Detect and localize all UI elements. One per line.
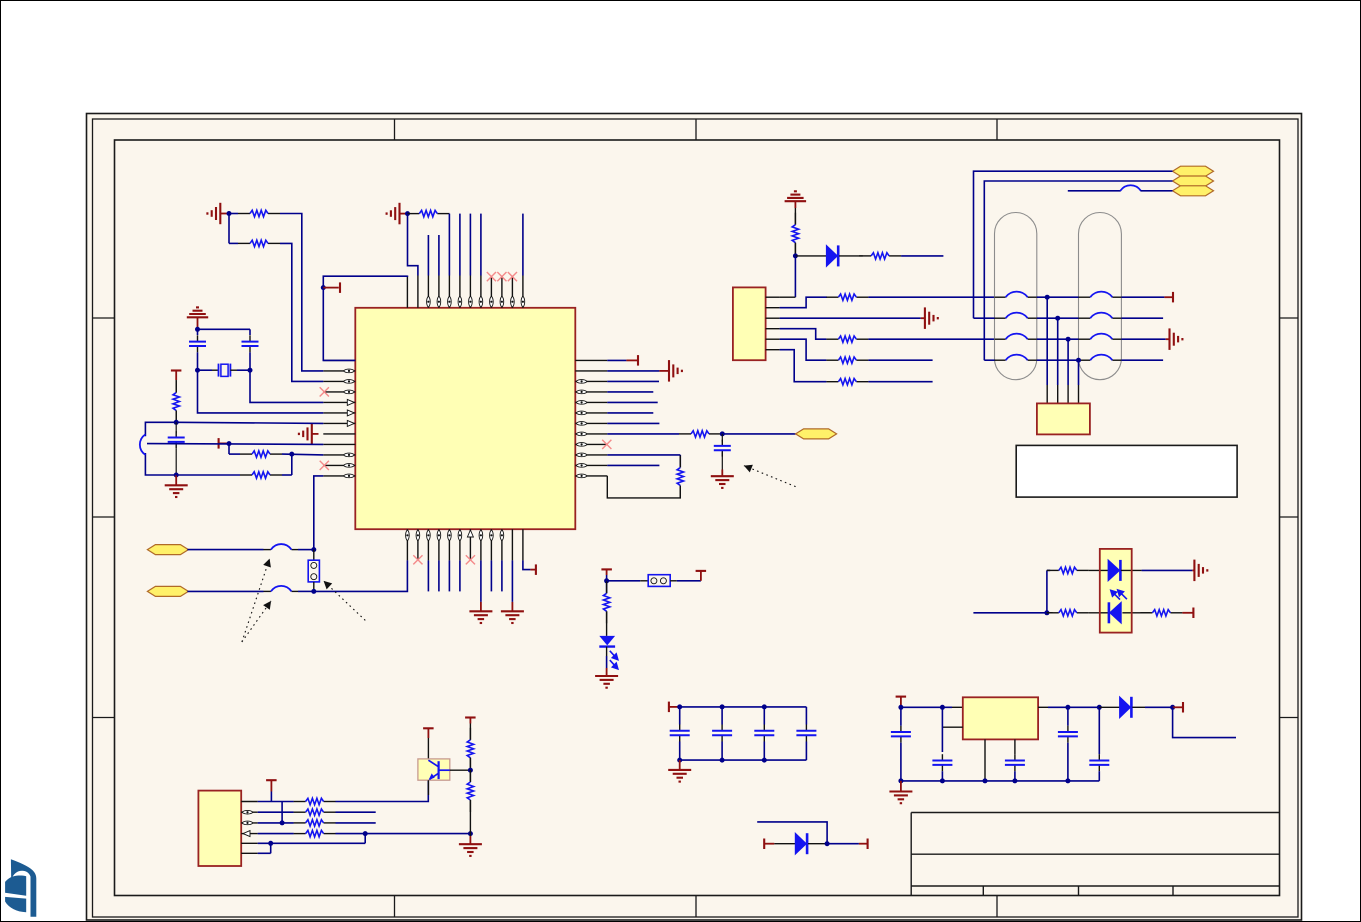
node TA bbox=[1045, 295, 1050, 300]
drawing area border bbox=[115, 140, 1280, 896]
wire stubs U1 bottom pins 9-10 bbox=[490, 560, 492, 591]
no-connect X on U1 left pin 4 bbox=[320, 387, 329, 396]
ground G13 bbox=[679, 760, 681, 770]
ground G7 (right earth) bbox=[668, 360, 670, 382]
resistor R21 bbox=[294, 833, 306, 835]
capacitor C11 bbox=[1014, 754, 1016, 760]
power tap P7 bbox=[1192, 608, 1194, 619]
capacitors C5-C8 bbox=[679, 707, 681, 725]
rail nodes bbox=[898, 778, 903, 783]
power tap P6 bbox=[1164, 296, 1173, 298]
wire R2 to U1 left pin 3 bbox=[280, 243, 323, 381]
power tap P5 bbox=[626, 359, 638, 361]
wire bbox=[901, 706, 952, 708]
resistor R8 bbox=[679, 456, 681, 468]
net flag TX- bbox=[147, 586, 188, 596]
magnetics body outline left bbox=[995, 213, 1037, 380]
node J8 bbox=[174, 473, 179, 478]
node JC3 bbox=[762, 704, 767, 709]
schematic sheet area bbox=[87, 114, 1302, 921]
wire divider bbox=[291, 454, 293, 475]
node J7 bbox=[174, 420, 179, 425]
wire right pin 10 to R8 to right pin 12 bbox=[607, 454, 680, 456]
power tap P9 bbox=[896, 696, 907, 698]
wire to LED pair bbox=[973, 612, 1047, 614]
wire U1 bottom pin 11 to ground bbox=[511, 560, 513, 602]
wire bbox=[197, 329, 199, 335]
resistor R4 bbox=[175, 380, 177, 393]
wire stub top pin 7 bbox=[469, 214, 471, 276]
wire bbox=[1046, 570, 1048, 612]
wire U1 bottom pin 8 to ground bbox=[480, 560, 482, 602]
power tap P17 bbox=[700, 571, 702, 580]
LED D2 bbox=[1108, 560, 1120, 581]
jumper W1 bbox=[313, 550, 315, 561]
node J21 bbox=[468, 768, 473, 773]
resistor R19 bbox=[294, 811, 306, 813]
annotation arrow A1 bbox=[242, 559, 270, 642]
node J10 bbox=[289, 452, 294, 457]
wire stub bbox=[336, 811, 376, 813]
resistor R12 bbox=[826, 338, 838, 340]
node JR1 bbox=[898, 705, 903, 710]
wire to U1 bottom pin 1 bbox=[314, 560, 408, 591]
wire row1 bbox=[258, 801, 294, 803]
resistor R23 bbox=[469, 770, 471, 782]
node J22 bbox=[604, 578, 609, 583]
ground G4 bbox=[175, 475, 177, 485]
resistor R7 bbox=[679, 433, 691, 435]
ground G15 bbox=[459, 843, 482, 845]
net flag LED3 bbox=[1173, 186, 1214, 196]
wire row3 bbox=[258, 822, 294, 824]
ground G8 bbox=[711, 475, 734, 477]
no-connect X on U1 bottom pin 2 bbox=[413, 555, 422, 564]
wire bbox=[364, 834, 366, 844]
capacitor C4 bbox=[721, 434, 723, 442]
capacitor C12 bbox=[1067, 707, 1069, 725]
power tap P2 bbox=[171, 369, 182, 371]
node JR2 bbox=[940, 705, 945, 710]
wire connector pin 2 to row A bbox=[780, 297, 827, 308]
power tap P1 bbox=[323, 287, 339, 289]
power tap P8 bbox=[668, 702, 670, 713]
wire row C to transformer bbox=[868, 338, 994, 340]
node J4 bbox=[195, 327, 200, 332]
transistor Q1 bbox=[427, 738, 429, 760]
wire right pin 8 RC net bbox=[607, 433, 679, 435]
resistor R15 bbox=[1047, 569, 1059, 571]
wire flag3 with hop bbox=[1068, 190, 1121, 192]
wire U4 bottom pin B bbox=[1014, 739, 1016, 754]
ground G9 (flipped earth) bbox=[794, 190, 797, 192]
wire flag1 to row B vertical bbox=[974, 171, 1173, 318]
wire stub right pin 4 bbox=[607, 391, 653, 393]
resistor R16 bbox=[1047, 612, 1053, 614]
capacitor C13 bbox=[1098, 707, 1100, 754]
node JC2 bbox=[720, 704, 725, 709]
capacitor C1 bbox=[197, 335, 199, 341]
wire connector pin 5 bbox=[780, 339, 827, 360]
wire R5 to U1 left pin 10 bbox=[282, 453, 323, 456]
ground G1 (left earth) bbox=[219, 203, 221, 224]
node JR4 bbox=[1097, 705, 1102, 710]
node J15 bbox=[1044, 610, 1049, 615]
power tap P15 bbox=[465, 716, 476, 718]
wire bbox=[984, 359, 994, 361]
top rail bbox=[680, 706, 807, 708]
wire bbox=[974, 317, 995, 319]
ground G6 bbox=[501, 610, 524, 612]
sheet inner frame line bbox=[93, 119, 1299, 917]
wire bbox=[336, 833, 471, 835]
termination network U2 bbox=[1037, 403, 1090, 434]
resistor R11 bbox=[826, 296, 838, 298]
node J11 bbox=[311, 547, 316, 552]
node JC5 bbox=[720, 758, 725, 763]
ground G2 (left earth) bbox=[398, 203, 400, 225]
wire stub top pin 12 bbox=[522, 214, 524, 276]
ground G10 (right earth) bbox=[924, 307, 926, 329]
wire U4 left pin 2 bbox=[942, 726, 962, 728]
title block bottom strip dividers bbox=[982, 886, 984, 896]
border zone ticks left bbox=[93, 317, 115, 319]
wire pin6 bbox=[270, 843, 272, 853]
ground G14 bbox=[900, 781, 902, 792]
wire U4 bottom pin A bbox=[984, 739, 986, 781]
wire row2 bbox=[258, 811, 294, 813]
wire stub right pin 6 bbox=[607, 412, 653, 414]
power tap P10 bbox=[1173, 706, 1183, 708]
node TD bbox=[1076, 358, 1081, 363]
wire connector pin 3 to ground bbox=[780, 317, 921, 319]
power tap P11 bbox=[763, 839, 765, 850]
node J19 bbox=[468, 831, 473, 836]
notes box bbox=[1016, 445, 1237, 497]
wire to U1 left pin 9 bbox=[147, 443, 323, 446]
ground G3 (flipped earth) bbox=[196, 306, 199, 308]
no-connect X marks on U1 top pins 9-11 bbox=[487, 272, 496, 281]
wire stub bbox=[868, 381, 932, 383]
resistor R10 bbox=[859, 255, 871, 257]
resistor R9 bbox=[794, 208, 796, 225]
annotation arrow A4 bbox=[744, 466, 796, 487]
capacitor C9 bbox=[900, 726, 902, 732]
transformer T1 winding row B bbox=[995, 317, 1006, 319]
wire stub right pin 11 bbox=[607, 464, 659, 466]
wire J7 to U1 left pin 7 bbox=[176, 422, 323, 423]
wire bbox=[228, 444, 230, 455]
wire R3 to U1 top pin 5 bbox=[448, 213, 450, 215]
wire bbox=[1121, 317, 1163, 319]
wire row A to transformer bbox=[868, 296, 994, 298]
wire stub bbox=[868, 359, 932, 361]
wire row1-row3 tie bbox=[281, 802, 283, 823]
wire J14 to connector pin 1 bbox=[794, 256, 796, 297]
node J14 bbox=[793, 253, 798, 258]
wire to flag bbox=[722, 433, 795, 435]
crystal Y1 bbox=[198, 369, 213, 371]
node JC1 bbox=[677, 704, 682, 709]
node J2 bbox=[405, 211, 410, 216]
annotation arrow A3 bbox=[324, 581, 366, 621]
wire bbox=[1142, 569, 1193, 571]
wire stub top pin 6 bbox=[459, 214, 461, 276]
wire bbox=[198, 328, 251, 330]
resistor R5 bbox=[240, 453, 252, 455]
wire J6 to U1 left pin 5 bbox=[250, 370, 323, 402]
wire flag2 to row D vertical bbox=[984, 181, 1172, 360]
node J17 bbox=[280, 820, 285, 825]
transformer T1 winding row A bbox=[995, 296, 1006, 298]
LED pair box U3 border bbox=[1100, 549, 1132, 633]
ground G5 bbox=[469, 610, 492, 612]
node J5 bbox=[195, 368, 200, 373]
node J12 bbox=[311, 589, 316, 594]
wire bbox=[607, 476, 680, 498]
wire guard loop bbox=[145, 422, 176, 436]
bottom rail bbox=[680, 759, 807, 761]
power tap P4 bbox=[530, 569, 536, 571]
wire bbox=[249, 329, 251, 335]
wire into LED pair bbox=[1089, 569, 1108, 571]
U1 right pins bbox=[575, 359, 607, 361]
node J3 bbox=[321, 285, 326, 290]
U1 top pins bbox=[406, 276, 408, 308]
no-connect X on U1 bottom pin 7 bbox=[466, 555, 475, 564]
node JC4 bbox=[677, 758, 682, 763]
connector J3 pins bbox=[241, 801, 258, 803]
wire bbox=[228, 214, 230, 244]
wire J2 to U1 top pin 2 bbox=[408, 214, 418, 276]
border zone ticks top bbox=[394, 119, 396, 140]
wire center taps to termination network bbox=[1046, 297, 1048, 385]
no-connect X on U1 left pin 11 bbox=[320, 461, 329, 470]
ST logo bbox=[5, 859, 36, 917]
LED arrows bbox=[1111, 590, 1127, 600]
wire bbox=[1121, 359, 1163, 361]
wire U1 right pin 1 to power tap bbox=[607, 359, 626, 361]
wire stub bbox=[757, 822, 827, 844]
LED D3 bbox=[1089, 612, 1110, 614]
wire output stub bbox=[1173, 707, 1236, 737]
wire row5 bbox=[258, 842, 366, 844]
wire bbox=[249, 352, 251, 370]
ground G12 (right earth) bbox=[1193, 560, 1195, 582]
diode D1 bbox=[795, 255, 826, 257]
node J6 bbox=[248, 368, 253, 373]
resistor R1 bbox=[238, 213, 250, 215]
diode D4 bbox=[1099, 706, 1119, 708]
capacitor C3 bbox=[175, 422, 177, 433]
node JR5 bbox=[1170, 705, 1175, 710]
resistor R24 bbox=[606, 581, 608, 594]
wire net VDD to U1 top pin 1 and left pin 1 bbox=[323, 276, 407, 361]
no-connect X on U1 right pin 9 bbox=[602, 440, 611, 449]
power tap P12 bbox=[867, 839, 869, 850]
annotation arrow A2 bbox=[242, 601, 271, 642]
wire bbox=[1037, 338, 1079, 340]
wire with hop bbox=[187, 590, 263, 592]
magnetics body outline right bbox=[1079, 213, 1122, 380]
border zone ticks right bbox=[1280, 317, 1299, 319]
connector J2 pins bbox=[766, 296, 780, 298]
wire to Q1 emitter bbox=[336, 780, 429, 801]
wire stub right pin 5 bbox=[607, 401, 657, 403]
wire U1 bottom pin 12 to power bbox=[523, 560, 531, 569]
node J13 bbox=[721, 433, 722, 435]
bottom rail bbox=[901, 780, 1099, 782]
power tap P16 bbox=[601, 568, 612, 570]
wire stub top pin 4 bbox=[438, 235, 440, 276]
regulator U4 bbox=[963, 697, 1038, 739]
wire connector pin 4 to row C bbox=[780, 329, 827, 340]
wire U4 output bbox=[1038, 706, 1048, 708]
transformer T1 winding row D bbox=[995, 359, 1006, 361]
U1 bottom pins bbox=[406, 529, 408, 560]
resistor R18 bbox=[294, 801, 306, 803]
power tap P13 bbox=[266, 779, 277, 781]
LED D6 bbox=[599, 636, 615, 646]
wire bbox=[1037, 296, 1079, 298]
LED pair box U3 fill bbox=[1100, 549, 1132, 633]
capacitor C2 bbox=[249, 335, 251, 341]
node J9 bbox=[227, 441, 232, 446]
resistor R20 bbox=[294, 822, 306, 824]
resistor R22 bbox=[469, 724, 471, 740]
connector J3 (serial) bbox=[198, 791, 241, 866]
node JC6 bbox=[762, 758, 767, 763]
net flag NRST bbox=[796, 429, 837, 439]
connector J2 (line) bbox=[733, 287, 766, 360]
capacitor C10 bbox=[941, 754, 943, 760]
resistor R17 bbox=[1140, 612, 1152, 614]
border zone ticks bottom bbox=[394, 896, 396, 918]
wire U1 right pin 2 to ground bbox=[607, 370, 659, 372]
node J1 bbox=[227, 211, 232, 216]
power tap P3 bbox=[218, 438, 220, 449]
node J16 bbox=[825, 841, 830, 846]
wire row4 bbox=[258, 833, 294, 835]
wire stub right pin 3 bbox=[607, 380, 659, 382]
node J20 bbox=[268, 841, 273, 846]
wire stub top pin 8 bbox=[480, 214, 482, 276]
transformer T1 winding row C bbox=[995, 338, 1006, 340]
wire stubs U1 bottom pins 3-6 bbox=[427, 560, 429, 591]
node TC bbox=[1066, 337, 1071, 342]
wire bbox=[1121, 296, 1164, 298]
wire bbox=[941, 707, 943, 752]
wire bbox=[901, 255, 943, 257]
wire bbox=[827, 843, 859, 845]
wire hop on guard loop bbox=[140, 434, 146, 455]
net flag TX+ bbox=[147, 545, 188, 555]
wire to power tap bbox=[1182, 612, 1193, 614]
wire stub bbox=[336, 822, 376, 824]
resistor R2 bbox=[238, 242, 250, 244]
wire stub right pin 7 bbox=[607, 422, 659, 424]
resistor R6 bbox=[176, 474, 240, 476]
node J18 bbox=[363, 831, 368, 836]
resistor R13 bbox=[826, 359, 838, 361]
power tap P14 bbox=[423, 727, 434, 729]
net flag LED2 bbox=[1173, 176, 1214, 186]
wire connector pin 6 bbox=[780, 350, 827, 382]
wire R1 to U1 left pin 2 bbox=[280, 214, 323, 371]
resistor R3 bbox=[407, 213, 419, 215]
diode D5 bbox=[774, 843, 795, 845]
wire J5 to U1 left pin 6 bbox=[198, 370, 324, 413]
wire bbox=[197, 352, 199, 370]
wire with hop bbox=[187, 549, 263, 551]
title block bbox=[911, 812, 1279, 814]
U1 left pins bbox=[323, 359, 355, 361]
net flag LED1 bbox=[1173, 166, 1214, 176]
jumper W2 bbox=[607, 580, 641, 582]
wire bbox=[229, 213, 238, 215]
wire U1 left pin 12 loop bbox=[314, 476, 324, 550]
wire stub top pin 3 bbox=[427, 235, 429, 276]
ground G17 (left earth) on U1 left pin 8 bbox=[311, 423, 313, 445]
resistor R14 bbox=[826, 381, 838, 383]
ground G16 bbox=[595, 675, 618, 677]
ground G11 (right earth) bbox=[1168, 328, 1170, 350]
node JR3 bbox=[1065, 705, 1070, 710]
main IC U1 (ethernet PHY) bbox=[355, 308, 575, 529]
node TB bbox=[1055, 316, 1060, 321]
